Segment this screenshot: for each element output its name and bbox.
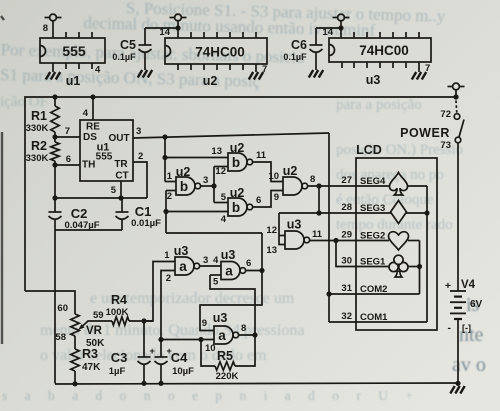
COM1 row (pin 32)	[329, 321, 356, 323]
svg-text:74HC00: 74HC00	[359, 43, 409, 58]
svg-text:14: 14	[322, 27, 333, 38]
svg-text:u1: u1	[66, 74, 81, 88]
B3 out to gate4 pin 9	[252, 191, 283, 208]
resistor R3 47K	[74, 336, 76, 349]
svg-text:R3: R3	[82, 347, 98, 361]
svg-text:VR: VR	[86, 325, 103, 337]
svg-text:220K: 220K	[216, 371, 239, 382]
svg-text:13: 13	[266, 245, 277, 256]
ground u2 pin 7	[255, 64, 257, 72]
svg-text:10µF: 10µF	[172, 366, 194, 377]
IC package u3 (74HC00)	[329, 38, 431, 62]
ground under C5	[138, 70, 142, 78]
svg-text:11: 11	[312, 229, 323, 240]
branch to SEG3 row	[318, 186, 320, 213]
ground u3 pin 7	[418, 62, 420, 72]
resistor R5 220K feedback	[201, 340, 215, 367]
nand gate B2 (u2 b, pins 13,12 -> 11)	[228, 153, 247, 171]
svg-text:b: b	[232, 200, 240, 215]
svg-text:73: 73	[440, 140, 451, 151]
top V+ rail	[25, 97, 456, 291]
svg-text:60: 60	[57, 303, 68, 314]
svg-text:a: a	[179, 259, 187, 274]
svg-text:4: 4	[83, 108, 89, 119]
svg-text:R1: R1	[31, 109, 47, 123]
svg-text:b: b	[232, 155, 240, 170]
svg-text:29: 29	[341, 230, 352, 241]
wire TR node to A2-out node	[166, 232, 262, 234]
svg-text:dos apareça no po: dos apareça no po	[336, 167, 444, 183]
nand gate A3 (u3 a, pins 9,10 -> 8)	[214, 326, 233, 344]
svg-text:u2: u2	[230, 186, 245, 200]
u1 pin 4 wire to rail	[92, 97, 94, 120]
wire A1 out to A2 pin 4	[199, 265, 221, 267]
svg-text:R5: R5	[217, 349, 233, 363]
svg-text:a: a	[218, 328, 226, 343]
capacitor C2 0.047uF	[54, 198, 56, 212]
svg-text:1: 1	[167, 171, 173, 182]
LCD block	[356, 158, 437, 330]
wire: OUT node down to gate-b cluster (pin13/pin1 feeds)	[164, 137, 166, 182]
svg-text:RE: RE	[86, 122, 100, 133]
capacitor C5 0.1uF	[144, 28, 146, 45]
A3 pin 10 row	[161, 339, 214, 341]
svg-text:12: 12	[215, 166, 226, 177]
svg-text:14: 14	[159, 27, 170, 38]
svg-text:u3: u3	[213, 311, 228, 325]
svg-text:u2: u2	[203, 74, 218, 88]
svg-text:V4: V4	[461, 279, 476, 291]
svg-text:72: 72	[440, 109, 451, 120]
ground rail (bottom)	[55, 383, 458, 384]
svg-text:C1: C1	[135, 204, 152, 219]
page-edge artifact	[1, 16, 4, 344]
ground u1 pin 1	[52, 63, 54, 72]
svg-text:5: 5	[111, 185, 117, 196]
svg-text:u2: u2	[283, 164, 298, 178]
u1 pin 3 OUT wire	[133, 133, 329, 138]
svg-text:8: 8	[43, 23, 48, 34]
nand gate U2d (pins 10,9 -> 8)	[283, 177, 302, 195]
svg-text:CT: CT	[115, 171, 128, 182]
svg-text:u2: u2	[176, 165, 191, 179]
u1 pin 5 CT wire	[120, 181, 122, 198]
nand gate U3d (pins 12,13 -> 11)	[285, 231, 304, 249]
svg-text:59: 59	[93, 310, 104, 321]
ground under C6	[309, 70, 313, 78]
node row C2/C1 bottom	[55, 229, 122, 231]
wire C5 to u2 pin 14	[145, 27, 178, 29]
svg-text:9: 9	[274, 192, 279, 203]
U2d output to LCD SEG4 (pin 27)	[307, 185, 356, 187]
wire: V+ jog to VR top	[25, 291, 75, 314]
power terminal above u3 pin 14	[340, 21, 342, 38]
svg-text:11: 11	[256, 150, 267, 161]
svg-text:u3: u3	[174, 244, 189, 258]
svg-text:1µF: 1µF	[109, 366, 126, 377]
svg-text:0.1µF: 0.1µF	[283, 52, 307, 62]
capacitor C3 1uF electrolytic	[143, 321, 145, 357]
svg-text:s a b a d o n o e p n i a d o: s a b a d o n o e p n i a d o r U +	[2, 388, 420, 403]
svg-text:u3: u3	[221, 248, 236, 262]
wire R4 node up to gate A1 pin 1	[144, 262, 175, 322]
A3 output pin 8	[238, 334, 255, 336]
svg-text:8: 8	[241, 323, 246, 334]
B2 out to gate4 pin 10	[252, 162, 283, 182]
branch to SEG1 (pin 30)	[336, 241, 356, 267]
svg-text:R2: R2	[31, 139, 47, 153]
COM2 row (pin 31)	[329, 293, 356, 295]
feedback: A3 out to A2 pin 5	[210, 275, 255, 335]
svg-text:27: 27	[341, 175, 352, 186]
svg-text:para a posição: para a posição	[336, 97, 422, 113]
svg-text:TR: TR	[114, 159, 128, 170]
LCD spade symbol	[390, 173, 408, 196]
svg-text:6: 6	[66, 154, 71, 165]
svg-text:12: 12	[266, 225, 277, 236]
LCD heart symbol	[389, 232, 409, 250]
svg-text:C6: C6	[291, 38, 307, 52]
svg-text:3: 3	[203, 175, 208, 186]
wire C6 to u3 pin 14	[316, 27, 341, 29]
wire SEG3 row (pin 28)	[279, 212, 356, 214]
ground symbol at battery	[450, 386, 454, 394]
svg-text:58: 58	[55, 332, 66, 343]
svg-text:a: a	[225, 263, 233, 278]
svg-text:9: 9	[202, 318, 207, 329]
switch POWER (contacts 72/73)	[455, 101, 458, 114]
IC package u1 (555)	[40, 38, 105, 63]
wire: TR node vertical (pin2/pin4/A-latch feeds)	[165, 191, 167, 234]
svg-text:7: 7	[65, 126, 70, 137]
svg-text:5: 5	[221, 192, 227, 203]
svg-text:330K: 330K	[26, 123, 49, 134]
A2 output wire pin 6	[245, 270, 262, 272]
svg-text:74HC00: 74HC00	[195, 45, 245, 60]
B1 out junction	[200, 185, 214, 187]
svg-text:31: 31	[341, 283, 352, 294]
nand gate A2 (u3 a, pins 4,5 -> 6)	[221, 262, 240, 280]
svg-text:0.01µF: 0.01µF	[131, 218, 161, 229]
node row TH/TR/C2/C1	[55, 197, 147, 199]
svg-text:6V: 6V	[470, 299, 483, 310]
LCD diamond symbol	[391, 201, 407, 224]
wire switch to battery	[457, 143, 459, 291]
svg-text:4: 4	[213, 255, 219, 266]
svg-text:+: +	[150, 346, 155, 356]
svg-text:10: 10	[268, 171, 279, 182]
OUT long vertical to COM rows	[328, 133, 330, 322]
nand gate B3 (u2 b, pins 5,4 -> 6)	[228, 198, 247, 216]
svg-text:tempo durante rado: tempo durante rado	[336, 217, 453, 233]
op timer u1 555 body	[80, 120, 133, 181]
svg-text:4: 4	[95, 65, 101, 76]
capacitor C6 0.1uF	[315, 28, 317, 45]
power terminal on rail	[455, 90, 457, 97]
svg-text:30: 30	[341, 256, 352, 267]
capacitor C1 0.01uF	[121, 198, 123, 212]
LCD inner wiring	[356, 185, 389, 187]
capacitor C4 10uF electrolytic	[160, 340, 162, 358]
svg-text:DS: DS	[83, 132, 97, 143]
svg-text:13: 13	[211, 146, 222, 157]
svg-text:-: -	[448, 322, 452, 334]
svg-text:C3: C3	[111, 350, 128, 365]
svg-text:2: 2	[167, 191, 172, 202]
svg-text:2: 2	[138, 151, 143, 162]
svg-text:8: 8	[310, 174, 315, 185]
A2 pin 5 stub	[210, 274, 221, 276]
IC package u2 (74HC00)	[165, 38, 267, 64]
resistor R2 330K	[51, 142, 59, 161]
svg-text:LCD: LCD	[356, 143, 382, 157]
svg-text:R4: R4	[111, 293, 127, 307]
svg-text:POWER: POWER	[400, 126, 450, 140]
svg-text:b: b	[180, 179, 188, 194]
svg-text:4: 4	[221, 214, 227, 225]
svg-text:3: 3	[136, 126, 141, 137]
svg-text:6: 6	[256, 195, 261, 206]
svg-text:av o: av o	[452, 354, 486, 376]
svg-text:C5: C5	[120, 38, 136, 52]
resistor R1 330K	[51, 106, 59, 132]
svg-text:u3: u3	[287, 218, 302, 232]
resistor R4 100K	[112, 317, 129, 325]
wire C2 column to ground rail	[54, 230, 56, 384]
svg-text:OUT: OUT	[108, 133, 129, 144]
power terminal above u2 pin 14	[177, 21, 179, 38]
svg-text:TH: TH	[82, 160, 95, 171]
svg-text:1: 1	[164, 250, 170, 261]
nand gate A1 (u3 a, pins 1,2 -> 3)	[175, 257, 194, 275]
svg-text:u3: u3	[366, 73, 381, 87]
svg-text:10: 10	[205, 343, 216, 354]
svg-text:[-]: [-]	[462, 323, 471, 333]
U3d output to LCD SEG2 (pin 29)	[309, 240, 356, 242]
svg-text:C4: C4	[171, 350, 188, 365]
svg-text:0.1µF: 0.1µF	[112, 52, 136, 62]
potentiometer VR 50K	[71, 314, 79, 336]
svg-text:3: 3	[203, 255, 208, 266]
node: R2/pin6 junction, wire to TH pin 6	[52, 162, 57, 167]
svg-text:47K: 47K	[82, 362, 101, 373]
svg-text:u2: u2	[230, 141, 245, 155]
svg-text:2: 2	[166, 273, 171, 284]
svg-text:32: 32	[341, 311, 352, 322]
svg-text:555: 555	[62, 43, 86, 59]
svg-text:555: 555	[96, 152, 113, 163]
svg-text:5: 5	[213, 277, 219, 288]
LCD club symbol	[389, 255, 408, 277]
svg-text:100K: 100K	[106, 307, 129, 318]
branch down to inverter gate U3d	[279, 213, 285, 245]
svg-text:C2: C2	[71, 206, 88, 221]
svg-text:28: 28	[341, 202, 352, 213]
svg-text:6: 6	[246, 258, 251, 269]
node: R1/R2/pin7 junction, wire to DS pin 7	[52, 134, 57, 139]
bleed-through newsprint text	[0, 0, 446, 96]
power terminal above u1 pin 8	[52, 21, 54, 38]
nand gate B1 (u2 b, pins 1,2 -> 3)	[176, 177, 195, 195]
u1 pin 2 TR wire	[133, 162, 147, 198]
feedback: A2 out to A3 pin 9	[200, 271, 262, 331]
svg-text:330K: 330K	[26, 153, 49, 164]
wire C4 node up to gate A1 pin 2	[161, 271, 175, 340]
